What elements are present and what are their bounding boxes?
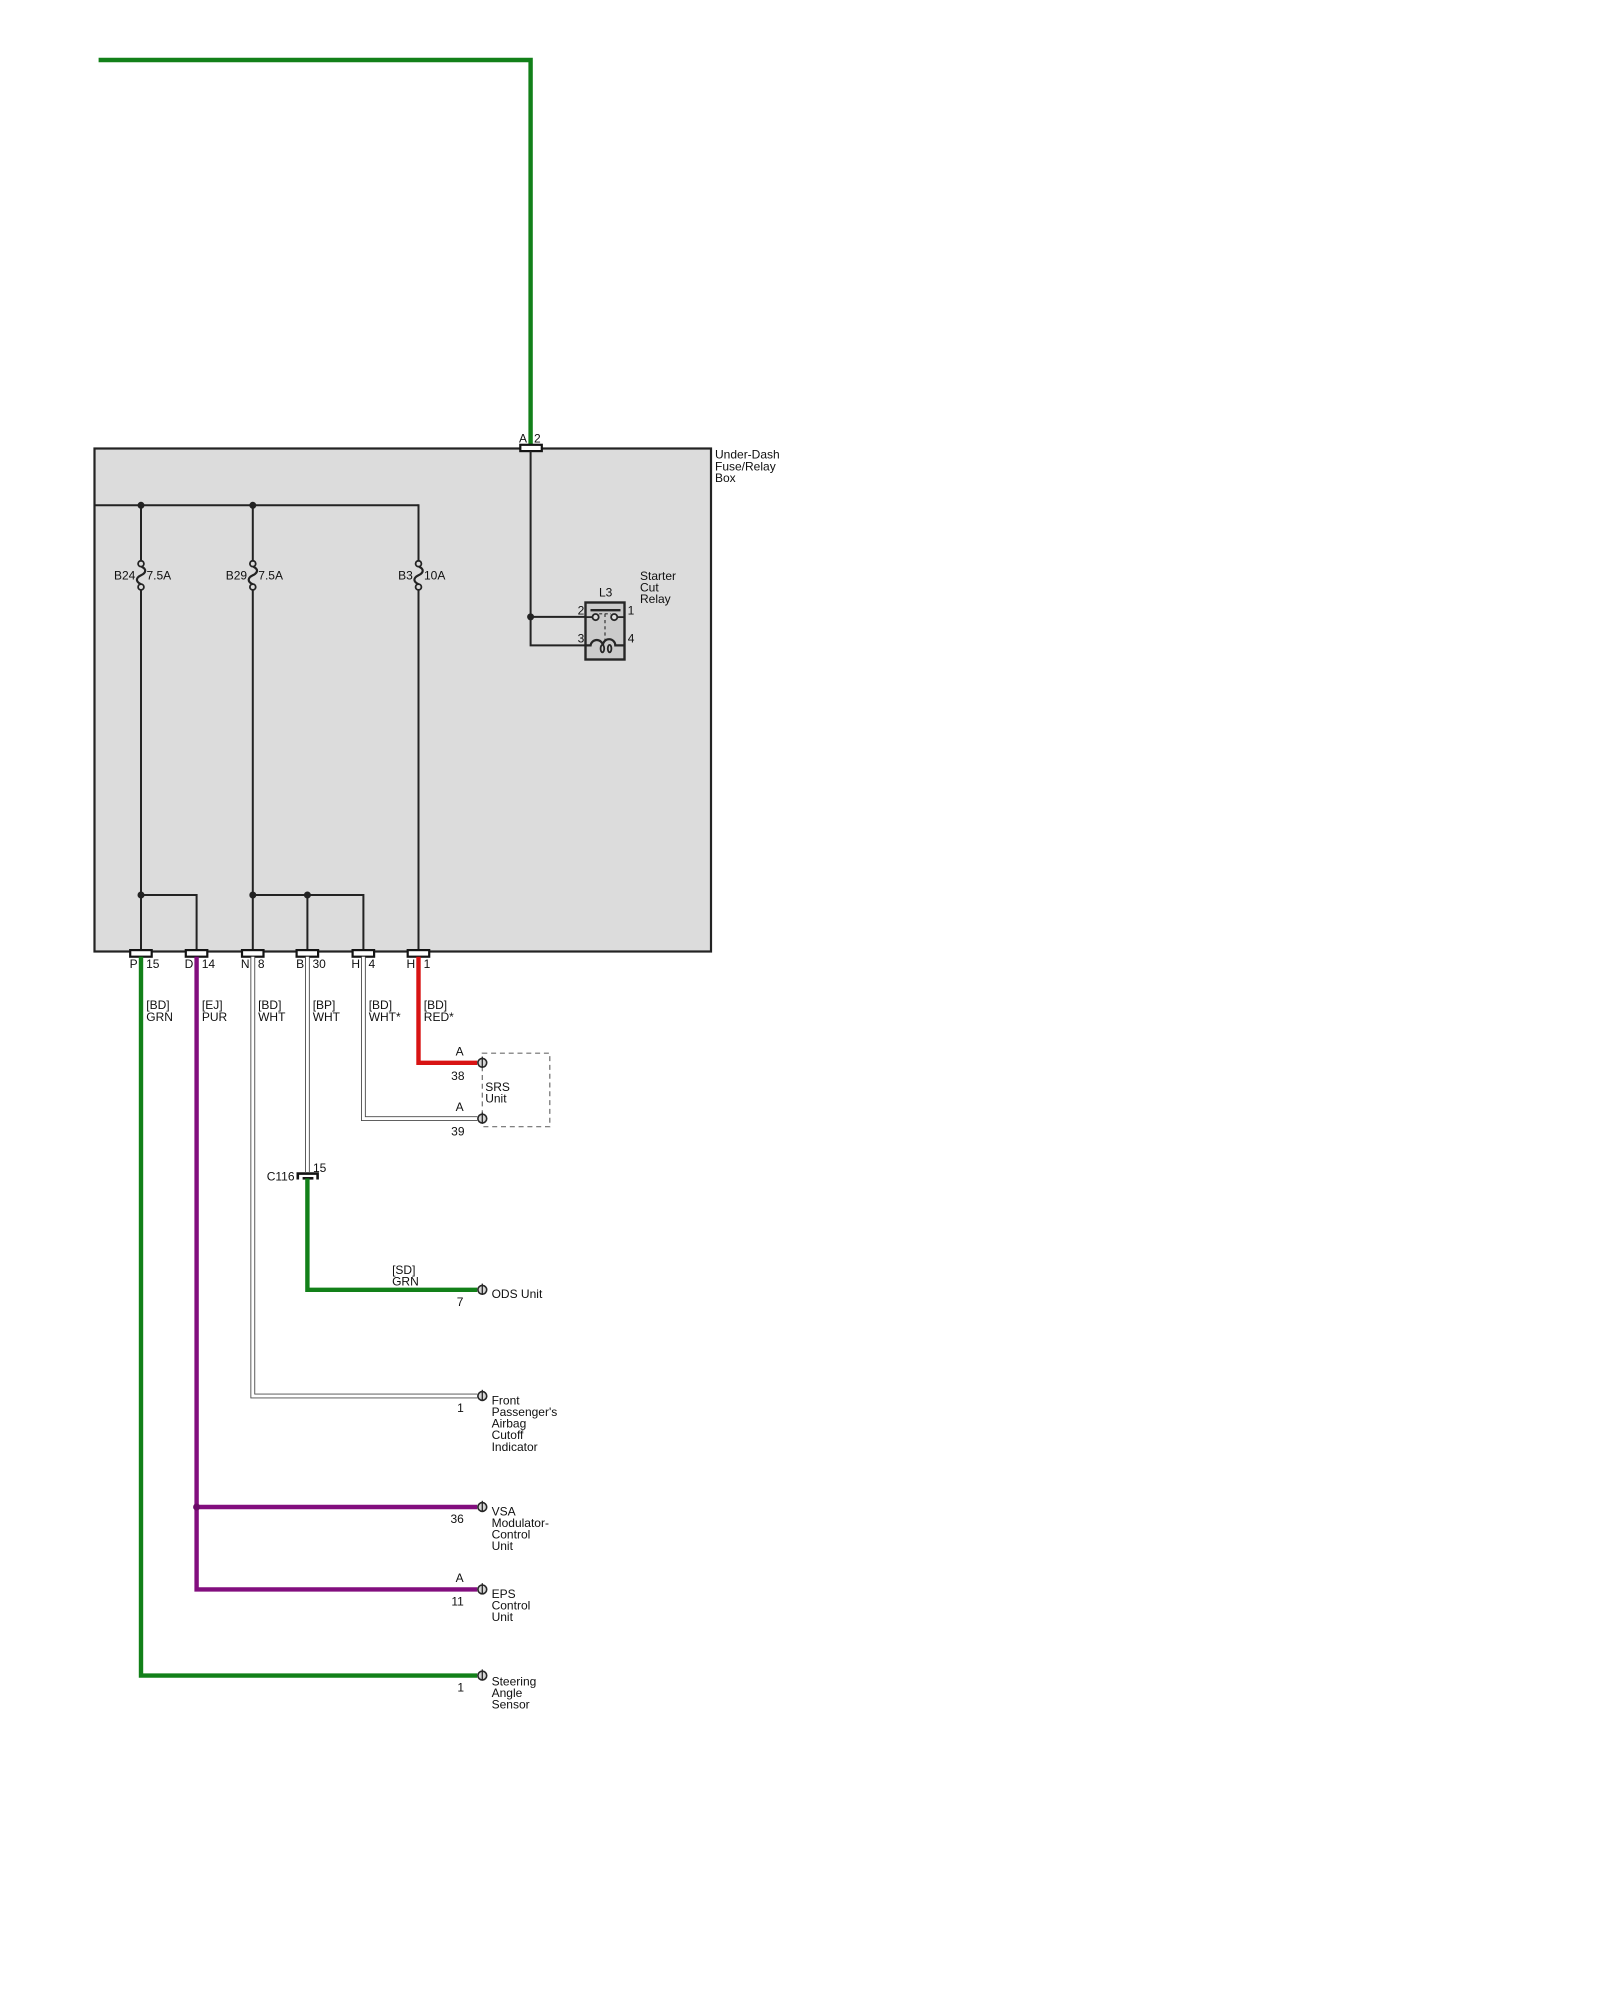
svg-text:B: B — [296, 957, 304, 971]
pin 7 ODS unit — [457, 1284, 543, 1309]
wire white N8 to indicator — [253, 957, 477, 1396]
svg-text:B24: B24 — [114, 569, 136, 583]
svg-text:39: 39 — [451, 1125, 465, 1139]
connector D 14 — [185, 950, 216, 971]
svg-text:4: 4 — [628, 631, 635, 645]
svg-text:Unit: Unit — [485, 1092, 507, 1106]
svg-text:36: 36 — [450, 1512, 464, 1526]
svg-text:Indicator: Indicator — [492, 1440, 538, 1454]
node branch P15 — [138, 892, 145, 899]
svg-text:1: 1 — [628, 603, 635, 617]
under-dash fuse/relay box — [95, 448, 780, 952]
svg-text:WHT: WHT — [258, 1010, 286, 1024]
wire B29 column — [252, 505, 254, 950]
svg-text:2: 2 — [534, 431, 541, 445]
svg-text:D: D — [185, 957, 194, 971]
node purple VSA branch — [193, 1504, 200, 1511]
svg-text:A: A — [456, 1044, 464, 1058]
svg-text:Box: Box — [715, 471, 736, 485]
fuse B29 7.5A — [226, 561, 283, 590]
SRS unit box — [482, 1053, 550, 1127]
svg-text:PUR: PUR — [202, 1010, 228, 1024]
connector H 4 — [351, 950, 375, 971]
svg-text:RED*: RED* — [424, 1010, 454, 1024]
svg-text:30: 30 — [313, 957, 327, 971]
relay L3 starter cut relay — [578, 569, 676, 660]
svg-text:2: 2 — [578, 603, 585, 617]
svg-text:15: 15 — [313, 1161, 327, 1175]
wire purple D14 — [197, 957, 478, 1590]
svg-text:38: 38 — [451, 1069, 465, 1083]
svg-text:1: 1 — [457, 1401, 464, 1415]
wire green P15 to steering angle sensor — [141, 957, 477, 1676]
connector C116 15 — [267, 1161, 327, 1184]
svg-text:A: A — [519, 431, 527, 445]
svg-text:11: 11 — [451, 1595, 464, 1609]
svg-text:1: 1 — [457, 1681, 464, 1695]
svg-text:N: N — [241, 957, 250, 971]
node branch N8 — [249, 892, 256, 899]
node branch B30 — [304, 892, 311, 899]
svg-text:GRN: GRN — [146, 1010, 173, 1024]
wire red H1 to SRS A38 — [419, 957, 478, 1063]
svg-text:C116: C116 — [267, 1170, 295, 1184]
pin 36 VSA modulator-control unit — [450, 1501, 549, 1553]
connector N 8 — [241, 950, 265, 971]
svg-text:L3: L3 — [599, 586, 613, 600]
svg-text:H: H — [351, 957, 360, 971]
svg-text:H: H — [407, 957, 416, 971]
wire relay feed — [531, 617, 586, 646]
svg-text:3: 3 — [578, 631, 585, 645]
pin A 39 SRS — [451, 1100, 487, 1139]
svg-text:4: 4 — [369, 957, 376, 971]
svg-text:10A: 10A — [424, 569, 445, 583]
svg-text:Unit: Unit — [492, 1539, 514, 1553]
svg-text:ODS Unit: ODS Unit — [492, 1287, 543, 1301]
pin 1 steering angle sensor — [457, 1669, 536, 1711]
wire B3 column — [418, 504, 420, 950]
wire white H4 to SRS A39 — [363, 957, 477, 1119]
pin 1 front passenger airbag cutoff indicator — [457, 1390, 557, 1454]
svg-text:GRN: GRN — [392, 1275, 419, 1289]
svg-text:7.5A: 7.5A — [147, 569, 172, 583]
svg-text:Sensor: Sensor — [492, 1698, 530, 1712]
wire branch P15/D14 — [141, 895, 197, 951]
fuse B24 7.5A — [114, 561, 171, 590]
svg-text:7: 7 — [457, 1295, 464, 1309]
node relay feed — [527, 613, 534, 620]
connector P 15 — [130, 950, 160, 971]
wire green battery feed — [99, 60, 531, 445]
svg-text:A: A — [456, 1571, 464, 1585]
svg-text:14: 14 — [202, 957, 216, 971]
svg-text:A: A — [456, 1100, 464, 1114]
svg-text:P: P — [130, 957, 138, 971]
pin A 11 EPS control unit — [451, 1571, 530, 1624]
connector B 30 — [296, 950, 326, 971]
svg-text:B29: B29 — [226, 569, 248, 583]
wire branch N8/B30/H4 — [253, 895, 364, 951]
wire bus inside box — [95, 504, 419, 506]
connector A 2 — [519, 431, 542, 451]
svg-text:Unit: Unit — [492, 1610, 514, 1624]
pin A 38 SRS — [451, 1044, 487, 1083]
svg-text:WHT: WHT — [313, 1010, 341, 1024]
svg-text:WHT*: WHT* — [369, 1010, 401, 1024]
svg-text:1: 1 — [424, 957, 431, 971]
svg-text:B3: B3 — [398, 569, 413, 583]
wire B24 column — [140, 505, 142, 950]
node bus/B29 — [249, 502, 256, 509]
wire from A2 into box — [530, 451, 532, 617]
svg-text:7.5A: 7.5A — [258, 569, 283, 583]
wire green C116 to ODS unit — [307, 1179, 477, 1290]
connector H 1 — [407, 950, 431, 971]
fuse B3 10A — [398, 561, 445, 590]
svg-text:8: 8 — [258, 957, 265, 971]
node bus/B24 — [138, 502, 145, 509]
svg-text:15: 15 — [146, 957, 160, 971]
svg-text:Relay: Relay — [640, 592, 671, 606]
wire white B30 to C116 — [307, 957, 340, 1172]
